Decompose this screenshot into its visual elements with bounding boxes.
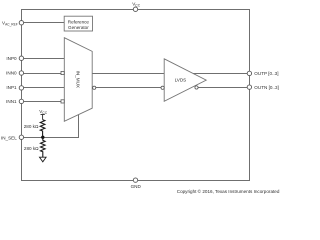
pin GND — [133, 178, 137, 182]
svg-text:VCC: VCC — [132, 2, 141, 8]
mux pin square INN1 — [61, 100, 64, 103]
svg-text:VAC_REF: VAC_REF — [2, 21, 18, 27]
resistor R2 280k — [41, 137, 46, 157]
pin VCC — [133, 7, 137, 11]
LVDS inverting output bubble — [195, 86, 198, 89]
svg-text:IN_SEL: IN_SEL — [1, 135, 17, 140]
pin INP1 — [19, 86, 23, 90]
svg-text:Copyright © 2016, Texas Instru: Copyright © 2016, Texas Instruments Inco… — [177, 188, 280, 194]
svg-text:INP1: INP1 — [6, 85, 17, 90]
pin VAC_REF — [19, 21, 23, 25]
pin IN_SEL — [19, 135, 23, 139]
LVDS inverting input bubble — [161, 86, 164, 89]
pin INN0 — [19, 71, 23, 75]
svg-text:GND: GND — [131, 184, 142, 189]
wire mux output positive — [92, 73, 164, 75]
wire INN1 to mux — [22, 101, 62, 103]
svg-text:OUTP [0..3]: OUTP [0..3] — [254, 71, 278, 76]
junction IN_SEL node — [41, 136, 44, 139]
LVDS driver U3 — [164, 59, 206, 102]
wire mux output negative — [96, 87, 161, 89]
ground symbol — [40, 157, 47, 162]
wire INN0 to mux — [22, 73, 62, 75]
wire VAC_REF to reference generator — [22, 22, 65, 24]
svg-text:VCC: VCC — [39, 109, 48, 115]
svg-text:INN0: INN0 — [6, 71, 17, 76]
resistor R1 280k — [40, 120, 45, 138]
svg-text:LVDS: LVDS — [175, 77, 187, 82]
device boundary — [22, 10, 250, 181]
wire INP0 to mux — [22, 58, 65, 60]
mux pin square INN0 — [61, 71, 64, 74]
pin INP0 — [19, 56, 23, 60]
svg-text:INN1: INN1 — [6, 99, 17, 104]
svg-text:Generator: Generator — [68, 25, 89, 30]
mux output bubble — [93, 86, 96, 89]
pin OUTN — [247, 85, 251, 89]
VCC power symbol for divider — [41, 115, 45, 120]
svg-text:280 kΩ: 280 kΩ — [24, 146, 39, 151]
wire INP1 to mux — [22, 87, 65, 89]
reference generator U1 — [64, 16, 92, 31]
wire IN_SEL to mux select — [22, 114, 79, 137]
svg-text:IN_MUX: IN_MUX — [76, 71, 81, 88]
svg-text:Reference: Reference — [68, 19, 90, 24]
pin INN1 — [19, 99, 23, 103]
input mux U2 — [64, 38, 92, 122]
svg-text:280 kΩ: 280 kΩ — [24, 124, 39, 129]
pin OUTP — [247, 71, 251, 75]
wire LVDS to OUTP — [193, 73, 249, 75]
svg-text:OUTN [0..3]: OUTN [0..3] — [254, 85, 279, 90]
svg-text:INP0: INP0 — [6, 56, 17, 61]
wire LVDS to OUTN — [198, 87, 249, 89]
